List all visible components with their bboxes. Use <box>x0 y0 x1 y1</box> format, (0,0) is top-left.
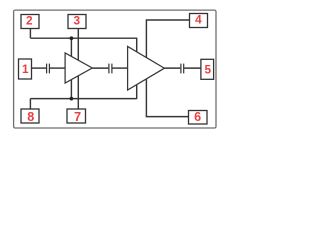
wire top bus <box>30 37 136 39</box>
wire pin1 to C1 <box>32 67 47 69</box>
wire bus drop into amp2 <box>136 38 138 99</box>
op-amp A2 <box>128 46 165 90</box>
svg-text:7: 7 <box>74 110 81 124</box>
wire amp1 supply vertical <box>70 38 72 98</box>
wire C1 to amp1 <box>50 67 65 69</box>
op-amp A1 <box>65 53 92 83</box>
wire C2 to amp2 <box>112 67 127 69</box>
wire bottom bus <box>30 98 136 100</box>
pin 1 box <box>19 59 32 79</box>
svg-text:4: 4 <box>195 13 202 27</box>
pin 3 box <box>68 15 86 29</box>
svg-text:6: 6 <box>194 110 201 124</box>
svg-text:3: 3 <box>74 13 81 27</box>
wire amp1 out to C2 <box>92 67 108 69</box>
wire pin2 drop <box>29 29 31 39</box>
junction dot bottom bus <box>70 97 74 101</box>
svg-text:1: 1 <box>22 62 29 76</box>
wire pin8 riser <box>29 99 31 109</box>
wire amp2 out to C3 <box>164 67 180 69</box>
IC outline box <box>14 10 216 128</box>
pin 2 box <box>21 15 39 29</box>
wire pin4 to amp2 <box>146 20 189 117</box>
capacitor C3 <box>181 64 184 74</box>
pin 6 box <box>189 111 208 125</box>
capacitor C1 <box>47 64 50 74</box>
wire pin3 to pin7 <box>77 29 79 110</box>
junction dot top bus <box>70 36 74 40</box>
pin 5 box <box>201 59 214 79</box>
pin 7 box <box>67 109 86 123</box>
pin 8 box <box>21 109 39 123</box>
pin 4 box <box>190 14 208 28</box>
svg-text:5: 5 <box>205 62 212 76</box>
wire C3 to pin5 <box>184 67 201 69</box>
capacitor C2 <box>109 64 112 74</box>
svg-text:8: 8 <box>27 110 34 124</box>
svg-text:2: 2 <box>26 14 33 28</box>
